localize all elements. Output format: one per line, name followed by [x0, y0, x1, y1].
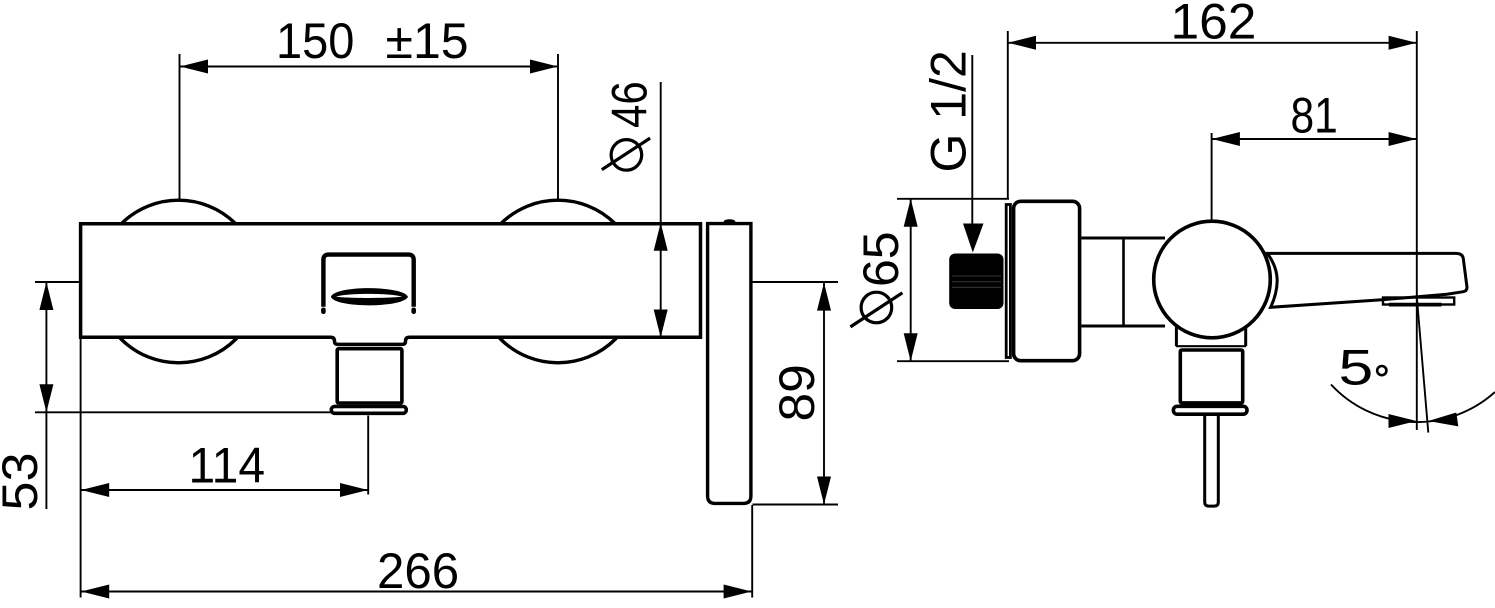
- faucet body front view: [81, 224, 701, 345]
- knurl stripe 2: [952, 281, 1001, 283]
- aerator dark outlet: [1389, 303, 1442, 307]
- dim 266 right extension: [751, 505, 753, 598]
- dim 266 left extension: [80, 339, 82, 598]
- dim 150 right arrow: [530, 60, 558, 74]
- dim 266 left arrow: [81, 585, 109, 599]
- G 1/2 leader line: [971, 55, 973, 226]
- left mounting flange circle: [97, 200, 260, 363]
- knurl stripe 1: [952, 275, 1001, 277]
- dim 53 bottom arrow: [39, 384, 53, 412]
- G 1/2 leader arrow: [963, 224, 984, 253]
- spout escutcheon bracket: [323, 255, 413, 307]
- dim 89 top arrow: [817, 283, 831, 311]
- body pipe bottom line (side view): [1081, 325, 1165, 328]
- 53 bottom reference line (behind flange): [35, 411, 406, 413]
- svg-text:81: 81: [1291, 87, 1338, 143]
- dim Ø46 line: [660, 82, 662, 338]
- Ø65 top extension line: [897, 198, 1009, 200]
- spout lever (side view): [1267, 253, 1467, 307]
- Ø46 diameter symbol circle: [611, 140, 642, 171]
- svg-text:162: 162: [1171, 0, 1257, 50]
- wall plate back flange: [1006, 205, 1010, 358]
- knurl stripe 3: [952, 286, 1001, 288]
- dim 114 line: [81, 489, 368, 491]
- aerator lens (front): [331, 288, 408, 305]
- dim Ø46 bottom arrow: [654, 310, 668, 338]
- down pipe (side view): [1205, 407, 1219, 506]
- svg-text:114: 114: [189, 438, 266, 493]
- collar right line: [1244, 326, 1247, 346]
- dim 162 line: [1008, 42, 1417, 44]
- dim 89 line: [823, 283, 825, 505]
- svg-text:150: 150: [276, 14, 354, 70]
- pipe seam line: [1122, 238, 1125, 326]
- spout aerator band (side view): [1383, 298, 1454, 305]
- arc left arrow: [1389, 414, 1417, 428]
- dim Ø65 top arrow: [904, 199, 918, 227]
- dimension 150 line: [180, 66, 558, 68]
- dim 81 left arrow: [1212, 132, 1240, 146]
- Ø65 bottom extension line: [897, 360, 1009, 362]
- dim 53 top extension: [35, 281, 81, 283]
- dim 114 left arrow: [81, 483, 109, 497]
- spout inlet flange (front): [331, 406, 406, 413]
- lever handle (front view): [708, 224, 751, 504]
- dim 114 extension (spout centerline): [367, 416, 369, 495]
- dim 266 line: [81, 591, 751, 593]
- dim 89 bottom extension: [753, 504, 839, 506]
- shared right extension / spout axis: [1416, 31, 1418, 430]
- arc right arrow: [1428, 413, 1458, 427]
- dim Ø65 bottom arrow: [904, 333, 918, 361]
- Ø65 diameter symbol circle: [861, 292, 892, 323]
- bottom flange (side view): [1173, 406, 1247, 414]
- collar left line: [1175, 326, 1178, 346]
- dim 81 left extension: [1211, 133, 1213, 220]
- dim Ø46 top arrow: [654, 223, 668, 251]
- body pipe top line (side view): [1081, 237, 1165, 240]
- dim 150 left extension: [179, 54, 181, 199]
- svg-text:266: 266: [377, 543, 459, 599]
- dim 53 top arrow: [39, 282, 53, 310]
- spout bracket left stub: [321, 310, 326, 312]
- right mounting flange circle: [477, 200, 640, 363]
- spout bracket right stub: [411, 310, 416, 312]
- aerator lens highlight: [336, 294, 402, 298]
- dim 266 right arrow: [724, 585, 752, 599]
- dim 114 right arrow: [340, 483, 368, 497]
- svg-text:±15: ±15: [386, 13, 469, 69]
- dim 162 left arrow: [1008, 36, 1036, 50]
- collar seam: [1176, 345, 1246, 347]
- dim 89 bottom arrow: [817, 477, 831, 505]
- svg-text:65: 65: [853, 231, 909, 287]
- degree symbol: [1377, 366, 1386, 375]
- 5 degree slanted jet line: [1417, 298, 1428, 433]
- svg-text:53: 53: [0, 453, 48, 511]
- spout inlet connector (front): [337, 349, 402, 403]
- svg-text:89: 89: [769, 364, 825, 421]
- dim 53 line: [45, 282, 47, 509]
- Ø65 diameter symbol slash: [850, 293, 902, 327]
- G 1/2 knurled fitting: [949, 254, 1003, 310]
- dim Ø65 line: [910, 199, 912, 361]
- dim 162 right arrow: [1389, 36, 1417, 50]
- Ø46 diameter symbol slash: [602, 138, 650, 170]
- svg-text:5: 5: [1339, 339, 1374, 395]
- svg-text:G 1/2: G 1/2: [921, 50, 977, 172]
- dim 81 right arrow: [1389, 132, 1417, 146]
- dim 162 left extension: [1007, 31, 1009, 200]
- handle button dot: [724, 219, 736, 224]
- wall plate (side view): [1014, 201, 1080, 360]
- dim 150 left arrow: [180, 60, 208, 74]
- cartridge ball circle (side view): [1154, 221, 1271, 338]
- 5 degree arc: [1331, 385, 1495, 423]
- dim 81 line: [1212, 138, 1417, 140]
- dim 89 top extension: [753, 281, 839, 283]
- svg-text:46: 46: [601, 81, 657, 128]
- dim 150 right extension: [557, 54, 559, 199]
- bottom connector (side view): [1180, 350, 1242, 403]
